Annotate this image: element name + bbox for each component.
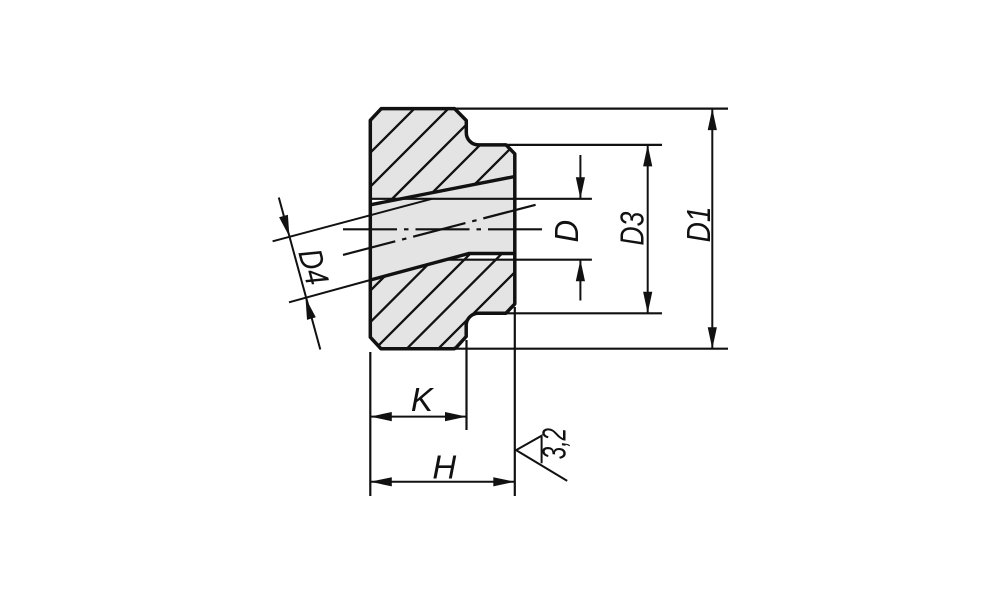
D extension line top (L1) — [370, 198, 592, 200]
arrow D bottom — [576, 260, 585, 282]
hatching top section — [323, 0, 659, 220]
arrow D4 lower — [306, 298, 316, 320]
svg-text:D3: D3 — [615, 211, 651, 245]
arrow D3 bottom — [643, 292, 652, 314]
H dim line — [370, 481, 515, 483]
svg-text:D1: D1 — [681, 207, 718, 243]
horizontal center line — [343, 228, 542, 230]
dimension D4 dim line — [279, 198, 321, 350]
H extension line right — [514, 307, 516, 496]
white sliver between D ext top and taper line — [370, 200, 399, 204]
taper silhouette thin line T2 — [289, 280, 370, 302]
hatching bottom section — [301, 200, 619, 360]
taper silhouette thin line T1 — [273, 199, 432, 242]
svg-text:D4: D4 — [291, 245, 336, 289]
dimension D3 dim line — [647, 145, 649, 313]
svg-text:D: D — [548, 220, 585, 243]
dimension D dim line upper tail — [579, 155, 581, 199]
K dim line — [370, 416, 466, 418]
D1 extension line top — [455, 107, 728, 109]
D1 extension line bottom — [456, 348, 728, 350]
arrow D4 upper — [279, 215, 289, 237]
arrow H left — [370, 477, 392, 486]
arrow D1 top — [708, 109, 717, 131]
svg-text:K: K — [411, 381, 435, 418]
dimension D1 dim line — [711, 109, 713, 349]
svg-text:3,2: 3,2 — [535, 428, 572, 459]
part outline — [370, 109, 515, 349]
arrow K right — [445, 412, 467, 421]
bore taper upper thick line S1 — [370, 177, 515, 205]
arrow K left — [370, 412, 392, 421]
arrow H right — [493, 477, 515, 486]
K extension line left (shared with H) — [369, 352, 371, 496]
K extension line right — [465, 340, 467, 430]
white sliver between bottom bore edge and D ext bottom — [449, 255, 515, 258]
surface finish symbol — [516, 436, 567, 481]
knob body section silhouette — [370, 109, 515, 349]
arrow D1 bottom — [708, 327, 717, 349]
D3 extension line top — [507, 144, 662, 146]
bore taper lower thick line S2 — [370, 254, 515, 281]
dimension D dim line lower tail — [579, 260, 581, 301]
svg-text:H: H — [432, 449, 456, 486]
D3 extension line bottom — [507, 312, 662, 314]
inclined center line — [343, 203, 542, 255]
D extension line bottom (L2) — [446, 259, 592, 261]
arrow D top — [576, 177, 585, 199]
arrow D3 top — [643, 145, 652, 167]
